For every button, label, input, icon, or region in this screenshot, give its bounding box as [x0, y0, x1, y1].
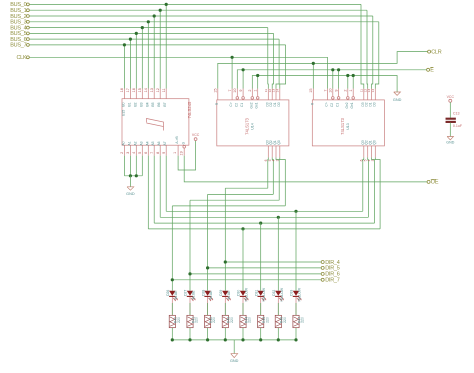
wire row U14.Q2 to LED column 3 [208, 193, 274, 195]
svg-text:B0: B0 [121, 102, 125, 106]
svg-text:BLUE: BLUE [192, 290, 196, 300]
svg-text:1: 1 [254, 90, 258, 92]
svg-text:15: 15 [214, 88, 218, 92]
U14 pin 11 D3 [267, 89, 269, 100]
wire resistor 4 to rail [224, 328, 226, 340]
wire E branch U13 pin 9 [338, 70, 340, 89]
junction CLK at U14 pin 7 [231, 56, 234, 59]
U13 pin 2 Ge2 inverted [347, 89, 349, 97]
U14 pin 9 C1 inverted [242, 89, 244, 97]
svg-text:220: 220 [248, 317, 252, 323]
svg-text:BLUE: BLUE [174, 290, 178, 300]
resistor R43 220 [222, 315, 228, 327]
U14 pin 5 Q2 [271, 146, 273, 158]
wire C13 to ground [449, 123, 451, 137]
svg-text:C1: C1 [240, 103, 244, 107]
wire U13 pin Q0 vertical to row [363, 157, 364, 211]
junction rail column 3 [206, 338, 209, 341]
svg-text:15: 15 [309, 88, 313, 92]
pin CLR [428, 50, 431, 53]
svg-text:220: 220 [212, 317, 216, 323]
wire U14 pin Q3 vertical [267, 157, 270, 188]
svg-text:U14: U14 [251, 123, 255, 130]
svg-text:U13: U13 [346, 123, 350, 130]
U14 pin 6 Q3 [267, 146, 269, 158]
svg-text:15: 15 [138, 88, 142, 92]
svg-text:9: 9 [239, 90, 243, 92]
wire row U14.Q3 to LED column 4 [225, 187, 267, 189]
svg-text:220: 220 [283, 317, 287, 323]
wire net BUS_6 horizontal [29, 38, 279, 40]
U14 pin 12 D2 [271, 89, 273, 100]
wire U15 pin A4 down to row [147, 156, 149, 229]
svg-text:Ge2: Ge2 [345, 102, 349, 108]
wire BUS_0 drop to U15 pin 18 [165, 4, 167, 88]
svg-text:D26: D26 [166, 290, 170, 296]
svg-text:3: 3 [126, 152, 130, 154]
svg-text:Q0: Q0 [277, 140, 281, 144]
wire E branch U14 pin 9 [242, 70, 244, 89]
svg-text:CLR: CLR [431, 49, 442, 55]
wire CLR branch to U13 pin 15 [312, 63, 314, 88]
svg-text:2: 2 [120, 152, 124, 154]
U13 pin 13 D1 [371, 89, 373, 100]
wire BUS_1 drop to U13 pin 12 [366, 10, 369, 88]
wire LED 3 cathode to resistor [207, 297, 209, 315]
U15 pin 2 A0 [123, 145, 125, 155]
U15 pin 11 B7 [165, 89, 167, 99]
svg-text:B7: B7 [163, 102, 167, 106]
svg-text:6: 6 [144, 152, 148, 154]
wire ground stem below U15 [129, 176, 131, 187]
U14 pin 3 Q0 [279, 146, 281, 158]
svg-text:74LS173: 74LS173 [245, 117, 250, 134]
svg-text:BUS_7: BUS_7 [10, 43, 26, 49]
wire BUS_4 drop to U15 pin 14 [141, 28, 143, 89]
svg-text:1: 1 [173, 152, 177, 154]
wire BUS_5 drop to U14 pin 12 [272, 33, 273, 88]
junction E at U13 pin 10 [331, 68, 334, 71]
svg-text:D32: D32 [272, 290, 276, 296]
wire LED column 3 vertical [207, 194, 209, 290]
wire LED 8 cathode to resistor [295, 297, 297, 315]
svg-text:GND: GND [230, 359, 239, 363]
U13 pin 6 Q3 [363, 146, 365, 158]
U15 pin 5 A3 [141, 145, 143, 155]
svg-text:7: 7 [150, 152, 154, 154]
svg-text:B3: B3 [139, 102, 143, 106]
svg-text:GND: GND [446, 141, 454, 145]
svg-text:YELLOW: YELLOW [262, 287, 266, 302]
wire row net A5/LED6/U13.Q2 [154, 222, 374, 224]
junction DIR_6 at LED column 2 [188, 272, 191, 275]
wire LED column 6 vertical [260, 223, 262, 291]
junction DIR_5 at LED column 3 [206, 266, 209, 269]
wire net DIR_5 [208, 267, 322, 269]
svg-text:220: 220 [301, 317, 305, 323]
wire rail to ground symbol [233, 340, 235, 354]
svg-text:A2: A2 [133, 141, 137, 145]
U15 pin 14 B4 [147, 89, 149, 99]
svg-text:3: 3 [371, 159, 375, 161]
wire BUS_5 drop to U15 pin 13 [135, 33, 137, 88]
wire resistor 7 to rail [277, 328, 279, 340]
svg-text:C>: C> [229, 102, 233, 106]
wire ground tie bar A0-A3 [124, 175, 142, 177]
wire bottom ground rail [172, 339, 296, 341]
wire U15 pin A0 to ground [123, 156, 125, 176]
LED D26 BLUE [169, 291, 175, 296]
svg-text:9: 9 [162, 152, 166, 154]
wire U13 pin Q1 vertical to row [367, 157, 370, 217]
svg-text:CLK: CLK [16, 55, 27, 61]
wire U15 pin A3 to ground [141, 156, 143, 176]
ground symbol M/N net [394, 92, 401, 95]
svg-text:A7: A7 [163, 141, 167, 145]
svg-text:YELLOW: YELLOW [245, 287, 249, 302]
wire net CLR from pin to U14 pin 15 [218, 52, 428, 89]
wire U13 pin Q3 vertical to row [375, 157, 380, 229]
svg-text:A6: A6 [157, 141, 161, 145]
wire LED column 1 vertical [171, 206, 173, 291]
resistor R46 220 [275, 315, 281, 327]
U14 pin 14 D0 [279, 89, 281, 100]
pin DIR_4 [321, 261, 324, 264]
wire BUS_4 drop to U14 pin 11 [267, 28, 270, 89]
svg-text:9: 9 [334, 90, 338, 92]
wire BUS_7 drop to U15 pin 11 [123, 45, 125, 89]
wire net BUS_7 horizontal [29, 44, 285, 46]
wire VCC to C13 [449, 102, 451, 118]
U15 pin 9 A7 [165, 145, 167, 155]
U15 pin 15 B3 [141, 89, 143, 99]
svg-text:4: 4 [132, 152, 136, 154]
wire net BUS_2 horizontal [29, 15, 372, 17]
wire net BUS_5 horizontal [29, 32, 273, 34]
junction rail column 8 [294, 338, 297, 341]
svg-text:7: 7 [228, 90, 232, 92]
U15 pin 19 G inverted [183, 146, 186, 149]
svg-text:Q0: Q0 [372, 140, 376, 144]
svg-text:5: 5 [138, 152, 142, 154]
svg-text:1: 1 [349, 90, 353, 92]
svg-text:A0: A0 [121, 141, 125, 145]
svg-text:0.1uF: 0.1uF [453, 124, 463, 128]
pin DIR_7 [321, 278, 324, 281]
resistor R47 220 [293, 315, 299, 327]
junction rail column 6 [259, 338, 262, 341]
wire net DIR_6 [190, 273, 321, 275]
junction rail column 4 [224, 338, 227, 341]
svg-text:C1: C1 [336, 103, 340, 107]
junction rail column 2 [188, 338, 191, 341]
svg-text:YELLOW: YELLOW [280, 287, 284, 302]
U13 pin 10 C2 inverted [332, 89, 334, 97]
junction M/N at U13 pin 1 [352, 74, 355, 77]
wire BUS_6 drop to U14 pin 13 [276, 39, 279, 88]
junction DIR_7 at LED column 1 [171, 278, 174, 281]
U13 pin 15 R [312, 89, 314, 100]
wire resistor 5 to rail [242, 328, 244, 340]
pin DIR_5 [321, 266, 324, 269]
svg-text:U15: U15 [122, 110, 126, 117]
LED D33 YELLOW [293, 291, 299, 296]
svg-text:Ge2: Ge2 [249, 102, 253, 108]
svg-text:B5: B5 [151, 102, 155, 106]
ground symbol below U15 [127, 187, 134, 190]
LED D28 BLUE [204, 291, 210, 296]
svg-text:B1: B1 [127, 102, 131, 106]
svg-text:A3: A3 [139, 141, 143, 145]
svg-text:Ge1: Ge1 [350, 102, 354, 108]
wire BUS_3 drop to U15 pin 15 [147, 22, 149, 89]
IC U13 74LS173 box [312, 100, 384, 146]
wire net BUS_0 horizontal [29, 3, 361, 5]
wire row net A7/LED8/U13.Q0 [166, 210, 363, 212]
svg-text:C>: C> [325, 102, 329, 106]
ground symbol C13 [447, 137, 453, 140]
wire U14 pin Q0 vertical [280, 157, 286, 206]
wire BUS_7 drop to U14 pin 14 [280, 45, 286, 89]
U13 pin 4 Q1 [371, 146, 373, 158]
ground symbol bottom rail [231, 354, 238, 358]
resistor R44 220 [240, 315, 246, 327]
U15 pin 13 B5 [153, 89, 155, 99]
wire U13 pin Q2 vertical to row [372, 157, 375, 223]
U14 pin 10 C2 inverted [236, 89, 238, 97]
pin E [427, 68, 430, 71]
wire LED 2 cathode to resistor [189, 297, 191, 315]
pin OE [427, 180, 430, 183]
junction BUS_6 at U15 [129, 38, 132, 41]
wire net OE from U15 pin 19 to pin OE [184, 156, 427, 182]
junction DIR_4 at LED column 4 [224, 260, 227, 263]
svg-text:GND: GND [393, 98, 402, 102]
wire BUS_0 drop to U13 pin 11 [361, 4, 364, 88]
LED D32 YELLOW [275, 291, 281, 296]
IC U15 74LS245 box [122, 99, 189, 146]
wire BUS_2 drop to U13 pin 13 [372, 16, 373, 89]
wire net E from pin to U14 pin 10 [237, 70, 426, 89]
junction LED column 6 on row [259, 222, 262, 225]
U15 pin 1 A->B [177, 145, 179, 155]
svg-text:G: G [181, 141, 185, 144]
wire net CLK horizontal to U13 pin 7 [29, 56, 327, 58]
wire resistor 6 to rail [260, 328, 262, 340]
wire row U14.Q0 to LED column 1 [172, 205, 285, 207]
U14 pin 13 D1 [275, 89, 277, 100]
junction A2 ground [135, 174, 138, 177]
junction A1 ground [129, 174, 132, 177]
wire LED column 5 vertical [242, 229, 244, 291]
svg-text:GND: GND [126, 192, 135, 196]
wire row net A6/LED7/U13.Q1 [160, 216, 368, 218]
svg-text:D30: D30 [237, 290, 241, 296]
svg-text:2: 2 [248, 90, 252, 92]
wire row U14.Q1 to LED column 2 [190, 199, 279, 201]
wire resistor 8 to rail [295, 328, 297, 340]
svg-text:17: 17 [126, 88, 130, 92]
LED D30 YELLOW [240, 291, 246, 296]
wire LED 6 cathode to resistor [260, 297, 262, 315]
junction M/N at U13 pin 2 [346, 74, 349, 77]
wire LED column 8 vertical [295, 211, 297, 290]
U13 pin 7 clock [327, 89, 329, 100]
pin DIR_6 [321, 272, 324, 275]
resistor R41 220 [187, 315, 193, 327]
VCC supply symbol at U15 pin 1 [194, 138, 197, 141]
wire U15 pin A6 down to row [159, 156, 161, 218]
junction BUS_0 at U15 [165, 3, 168, 6]
wire M/N branch U13 pin 2 [347, 76, 349, 89]
svg-text:B6: B6 [157, 102, 161, 106]
LED D27 BLUE [187, 291, 193, 296]
wire net DIR_7 [172, 279, 321, 281]
svg-text:D33: D33 [290, 290, 294, 296]
wire LED 1 cathode to resistor [171, 297, 173, 315]
U15 transceiver symbol [147, 119, 164, 131]
svg-text:220: 220 [230, 317, 234, 323]
svg-text:8: 8 [156, 152, 160, 154]
wire U15 pin A7 down to row [165, 156, 167, 212]
svg-text:10: 10 [329, 88, 333, 92]
junction E at U14 pin 9 [242, 68, 245, 71]
junction rail column 5 [241, 338, 244, 341]
U13 pin 11 D3 [363, 89, 365, 100]
U14 pin 15 R [217, 89, 219, 100]
U13 pin 12 D2 [367, 89, 369, 100]
svg-text:10: 10 [233, 88, 237, 92]
svg-text:D29: D29 [219, 290, 223, 296]
svg-text:220: 220 [177, 317, 181, 323]
wire U15 pin A2 to ground [135, 156, 137, 176]
wire LED column 2 vertical [189, 200, 191, 290]
junction LED column 8 on row [294, 210, 297, 213]
svg-text:D31: D31 [254, 290, 258, 296]
svg-text:B4: B4 [145, 102, 149, 106]
wire CLK drop to U13 pin 7 [327, 57, 329, 88]
svg-text:2: 2 [344, 90, 348, 92]
wire BUS_1 drop to U15 pin 17 [159, 10, 161, 88]
wire LED column 7 vertical [277, 217, 279, 290]
junction M/N at U14 pin 1 [256, 74, 259, 77]
U15 pin 8 A6 [159, 145, 161, 155]
svg-text:74LS173: 74LS173 [340, 117, 345, 134]
U15 pin 4 A2 [135, 145, 137, 155]
U13 pin 5 Q2 [367, 146, 369, 158]
wire LED column 4 vertical [224, 188, 226, 290]
svg-text:220: 220 [195, 317, 199, 323]
U14 pin 2 Ge2 inverted [251, 89, 253, 97]
U15 pin 3 A1 [129, 145, 131, 155]
U15 pin 12 B6 [159, 89, 161, 99]
U13 pin 9 C1 inverted [338, 89, 340, 97]
svg-text:14: 14 [275, 89, 279, 93]
IC U14 74LS173 box [217, 100, 289, 146]
junction LED column 7 on row [277, 216, 280, 219]
junction LED column 5 on row [241, 227, 244, 230]
svg-text:BLUE: BLUE [227, 290, 231, 300]
wire net BUS_1 horizontal [29, 9, 367, 11]
svg-text:12: 12 [156, 88, 160, 92]
svg-text:B2: B2 [133, 102, 137, 106]
wire LED 5 cathode to resistor [242, 297, 244, 315]
svg-text:VCC: VCC [447, 95, 455, 99]
LED D31 YELLOW [258, 291, 264, 296]
wire U15 pin A5 down to row [153, 156, 155, 224]
U15 pin 16 B2 [135, 89, 137, 99]
wire LED 4 cathode to resistor [224, 297, 226, 315]
svg-text:E: E [430, 68, 434, 74]
wire E branch U13 pin 10 [332, 70, 334, 89]
svg-text:16: 16 [132, 88, 136, 92]
svg-text:19: 19 [179, 151, 183, 155]
svg-text:D27: D27 [184, 290, 188, 296]
svg-text:D28: D28 [201, 290, 205, 296]
U15 pin 7 A5 [153, 145, 155, 155]
svg-text:11: 11 [162, 88, 166, 92]
junction BUS_4 at U15 [141, 26, 144, 29]
U14 pin 4 Q1 [275, 146, 277, 158]
svg-text:C13: C13 [453, 112, 460, 116]
svg-text:D0: D0 [372, 102, 376, 106]
U15 pin 6 A4 [147, 145, 149, 155]
LED D29 BLUE [222, 291, 228, 296]
svg-text:18: 18 [120, 88, 124, 92]
junction BUS_5 at U15 [135, 32, 138, 35]
svg-text:YELLOW: YELLOW [298, 287, 302, 302]
wire U14 pin Q2 vertical [272, 157, 273, 194]
U15 pin 17 B1 [129, 89, 131, 99]
svg-text:7: 7 [323, 90, 327, 92]
wire BUS_6 drop to U15 pin 12 [129, 39, 131, 88]
U13 pin 3 Q0 [374, 146, 376, 158]
wire U15 pin A1 to ground [129, 156, 131, 176]
svg-text:74LS245: 74LS245 [187, 101, 192, 118]
svg-text:A->B: A->B [175, 136, 179, 143]
U13 pin 1 Ge1 inverted [352, 89, 354, 97]
wire resistor 3 to rail [207, 328, 209, 340]
resistor R40 220 [169, 315, 175, 327]
U13 pin 14 D0 [374, 89, 376, 100]
wire BUS_2 drop to U15 pin 16 [153, 16, 155, 89]
wire U15 pin 1 DIR to VCC [178, 141, 196, 171]
resistor R45 220 [258, 315, 264, 327]
junction BUS_1 at U15 [159, 9, 162, 12]
wire net BUS_4 horizontal [29, 27, 267, 29]
junction E at U13 pin 9 [337, 68, 340, 71]
svg-text:A5: A5 [151, 141, 155, 145]
wire U14 pin Q1 vertical [276, 157, 279, 200]
svg-text:14: 14 [371, 89, 375, 93]
svg-text:13: 13 [150, 88, 154, 92]
wire CLK drop to U14 pin 7 [231, 57, 233, 88]
junction CLR at U13 pin 15 [312, 62, 315, 65]
junction rail column 7 [277, 338, 280, 341]
wire LED 7 cathode to resistor [277, 297, 279, 315]
U14 pin 7 clock [231, 89, 233, 100]
wire M/N branch U14 pin 1 [257, 76, 259, 89]
wire M/N branch U13 pin 1 [352, 76, 354, 89]
resistor R42 220 [205, 315, 211, 327]
U15 pin 18 B0 [123, 89, 125, 99]
junction BUS_2 at U15 [153, 14, 156, 17]
wire net M/N enable to ground [252, 76, 397, 93]
junction BUS_7 at U15 [123, 43, 126, 46]
svg-text:14: 14 [144, 88, 148, 92]
wire net BUS_3 horizontal [29, 21, 378, 23]
svg-text:A1: A1 [127, 141, 131, 145]
